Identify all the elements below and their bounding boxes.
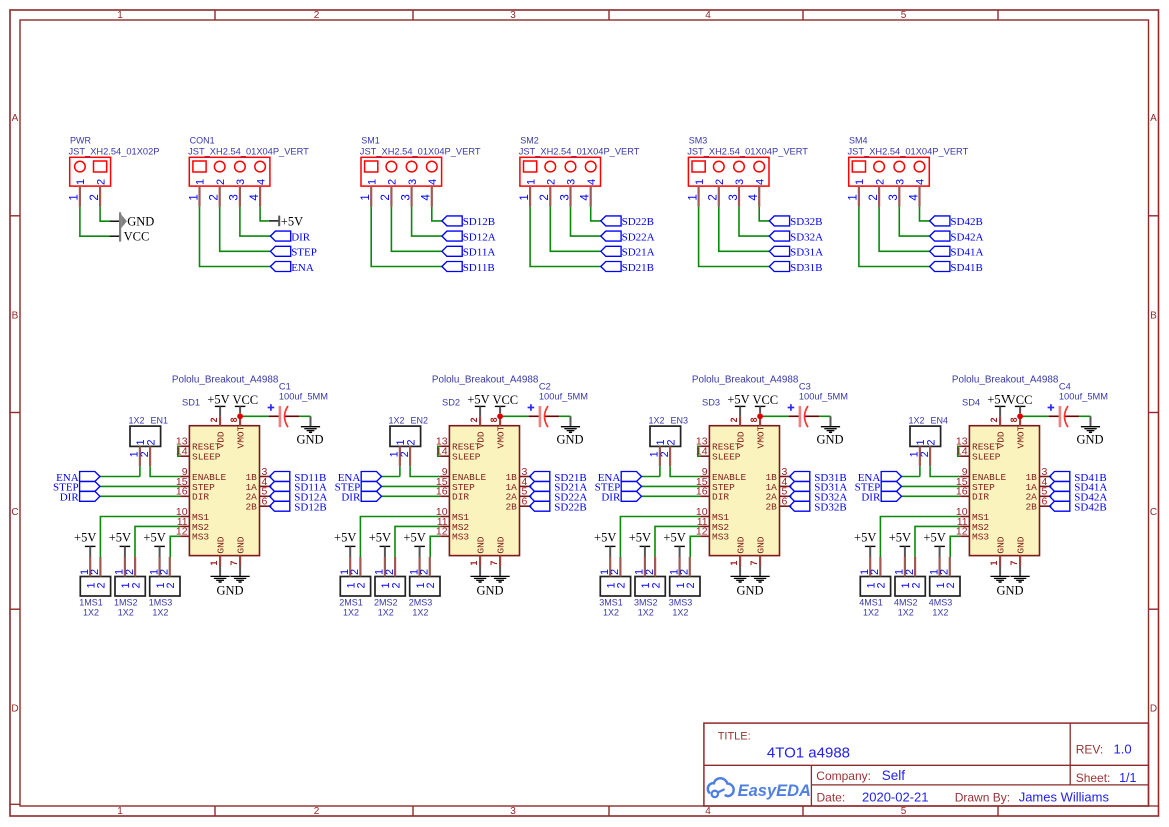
net flag ENA	[338, 472, 382, 484]
wire 4MS2.2 to SD4.MS2	[915, 526, 960, 557]
ground symbol	[731, 566, 750, 582]
svg-text:+5V: +5V	[403, 531, 425, 545]
svg-text:VMOT: VMOT	[236, 425, 247, 448]
svg-text:2: 2	[650, 582, 662, 588]
connector 1MS2 1X2	[114, 577, 145, 618]
svg-text:4: 4	[754, 179, 766, 185]
wire RESET-SLEEP jumper	[438, 446, 440, 456]
svg-text:EN3: EN3	[671, 415, 689, 425]
svg-text:2: 2	[679, 569, 691, 575]
svg-text:2: 2	[159, 569, 171, 575]
wire EN1.2 to SD1.ENABLE	[150, 466, 180, 476]
svg-text:2: 2	[314, 806, 320, 817]
svg-text:JST_XH2.54_01X04P_VERT: JST_XH2.54_01X04P_VERT	[519, 146, 640, 156]
svg-text:JST_XH2.54_01X02P: JST_XH2.54_01X02P	[69, 146, 160, 156]
svg-text:B: B	[1150, 311, 1157, 322]
svg-text:12: 12	[436, 526, 448, 538]
svg-text:12: 12	[956, 526, 968, 538]
svg-text:Pololu_Breakout_A4988: Pololu_Breakout_A4988	[172, 375, 279, 386]
svg-text:2: 2	[419, 569, 431, 575]
svg-text:1X2: 1X2	[909, 415, 925, 425]
svg-text:B: B	[12, 311, 19, 322]
wire 3MS1.2 to SD3.MS1	[620, 517, 700, 558]
svg-text:GND: GND	[1016, 536, 1027, 553]
svg-text:100uf_5MM: 100uf_5MM	[1059, 392, 1108, 402]
svg-text:2: 2	[89, 569, 101, 575]
svg-text:14: 14	[956, 446, 968, 458]
svg-text:5: 5	[901, 10, 907, 21]
svg-text:+5V: +5V	[207, 393, 229, 407]
svg-text:100uf_5MM: 100uf_5MM	[539, 392, 588, 402]
svg-text:+5V: +5V	[369, 531, 391, 545]
svg-text:1MS2: 1MS2	[114, 597, 138, 607]
svg-text:3: 3	[895, 179, 907, 185]
EasyEDA logo	[708, 778, 811, 800]
net flag SD32B	[790, 501, 847, 513]
svg-text:SLEEP: SLEEP	[972, 452, 1001, 463]
net flag SD31B	[790, 472, 847, 484]
wire SD1.VMOT/VCC to C1	[240, 415, 269, 417]
connector EN1 1X2	[129, 415, 169, 446]
net flag SD42B	[930, 216, 983, 228]
net flag SD41B	[1050, 472, 1107, 484]
power port +5V	[269, 214, 303, 228]
svg-text:+5V: +5V	[143, 531, 165, 545]
connector PWR (JST_XH2.54_01X02P)	[69, 136, 160, 187]
net flag SD12B	[270, 501, 327, 513]
wire SM2.4 to SD22B	[591, 207, 601, 221]
svg-text:2: 2	[925, 439, 937, 445]
svg-text:16: 16	[696, 486, 708, 498]
power port VCC (SD4)	[1007, 393, 1033, 414]
svg-text:GND: GND	[556, 432, 583, 446]
svg-text:2: 2	[379, 194, 392, 200]
connector 4MS3 1X2	[929, 577, 960, 618]
net flag SD21A	[530, 481, 588, 493]
svg-text:DIR: DIR	[972, 492, 989, 503]
wire DIR net to SD3.DIR	[642, 495, 701, 497]
svg-text:VCC: VCC	[1007, 393, 1033, 407]
wire PWR.2 to GND port	[100, 207, 110, 221]
wire CON1.3 to DIR	[240, 207, 271, 236]
svg-text:+5V: +5V	[594, 531, 616, 545]
svg-text:SM3: SM3	[689, 136, 708, 146]
svg-text:4TO1 a4988: 4TO1 a4988	[767, 745, 850, 762]
pins of CON1	[187, 186, 261, 207]
wire C1 to ground	[299, 415, 310, 417]
power port +5V	[727, 393, 749, 417]
net flag DIR	[270, 231, 310, 243]
net flag SD42A	[930, 231, 984, 243]
svg-text:2MS3: 2MS3	[409, 597, 433, 607]
svg-text:2: 2	[616, 582, 628, 588]
wire EN2.1 stem	[399, 466, 401, 476]
wire C2 to ground	[559, 415, 570, 417]
svg-text:SD3: SD3	[702, 397, 720, 407]
power port +5V (4MS3.1)	[923, 531, 945, 557]
svg-text:1MS3: 1MS3	[149, 597, 173, 607]
svg-text:2: 2	[644, 569, 656, 575]
net flag SD11A	[442, 246, 495, 258]
pins of SM3	[686, 186, 760, 207]
svg-text:+5V: +5V	[923, 531, 945, 545]
wire 3MS2.2 to SD3.MS2	[655, 526, 700, 557]
capacitor C3 100uf_5MM	[788, 381, 848, 427]
wire 4MS1.2 to SD4.MS1	[880, 517, 960, 558]
svg-text:STEP: STEP	[291, 247, 317, 259]
svg-text:VMOT: VMOT	[1016, 425, 1027, 448]
svg-text:2: 2	[685, 582, 697, 588]
svg-text:2020-02-21: 2020-02-21	[862, 790, 929, 805]
svg-text:SD12A: SD12A	[463, 231, 496, 243]
svg-text:1X2: 1X2	[863, 607, 879, 617]
ground symbol	[471, 566, 490, 582]
connector 3MS3 1X2	[669, 577, 700, 618]
svg-text:4: 4	[579, 194, 592, 201]
svg-text:VDD: VDD	[216, 431, 227, 448]
ground symbol	[1081, 416, 1100, 432]
svg-text:1X2: 1X2	[649, 415, 665, 425]
svg-text:2: 2	[88, 194, 101, 200]
ground symbol	[991, 566, 1010, 582]
net flag ENA	[858, 472, 902, 484]
power port VCC (SD3)	[752, 393, 778, 414]
svg-text:2: 2	[665, 439, 677, 445]
ground symbol	[821, 416, 840, 432]
net flag SD11B	[442, 262, 495, 274]
svg-text:3: 3	[399, 194, 412, 200]
net flag SD12A	[270, 491, 328, 503]
pins of PWR	[68, 186, 101, 207]
pins of 4MS2	[894, 557, 916, 577]
wire CON1.2 to STEP	[220, 207, 271, 252]
svg-text:Pololu_Breakout_A4988: Pololu_Breakout_A4988	[692, 375, 799, 386]
svg-text:GND: GND	[476, 536, 487, 553]
svg-text:6: 6	[522, 496, 528, 508]
svg-text:2: 2	[910, 582, 922, 588]
svg-text:SD31A: SD31A	[790, 247, 823, 259]
svg-text:VDD: VDD	[476, 431, 487, 448]
svg-text:DIR: DIR	[861, 492, 881, 504]
svg-text:1X2: 1X2	[638, 607, 654, 617]
pins of SM1	[359, 186, 433, 207]
connector 3MS2 1X2	[634, 577, 665, 618]
pins of EN4	[909, 446, 931, 466]
svg-text:1: 1	[366, 179, 378, 185]
svg-text:3: 3	[734, 179, 746, 185]
svg-text:SD42B: SD42B	[1074, 502, 1106, 514]
svg-text:SD42A: SD42A	[950, 231, 983, 243]
svg-text:1X2: 1X2	[412, 607, 428, 617]
wire 1MS2.2 to SD1.MS2	[135, 526, 180, 557]
svg-text:2: 2	[139, 451, 151, 457]
wire 2MS3.2 to SD2.MS3	[430, 536, 440, 557]
svg-text:2: 2	[714, 179, 726, 185]
pins of 4MS3	[928, 557, 950, 577]
svg-text:7: 7	[749, 561, 759, 566]
wire EN2.2 to SD2.ENABLE	[410, 466, 440, 476]
svg-text:Company:: Company:	[816, 769, 871, 783]
wire 4MS3.2 to SD4.MS3	[950, 536, 960, 557]
net flag SD11B	[270, 472, 327, 484]
wire EN1.1 stem	[139, 466, 141, 476]
svg-text:8: 8	[489, 417, 499, 422]
svg-text:2: 2	[939, 569, 951, 575]
svg-text:4MS1: 4MS1	[859, 597, 883, 607]
wire 2MS1.2 to SD2.MS1	[360, 517, 440, 558]
wire SM4.3 to SD42A	[899, 207, 929, 236]
wire SM3.1 to SD31B	[699, 207, 770, 267]
svg-text:James Williams: James Williams	[1019, 790, 1110, 805]
svg-text:GND: GND	[127, 215, 154, 229]
svg-text:4: 4	[427, 179, 439, 185]
net flag DIR	[861, 491, 901, 503]
power port +5V (2MS3.1)	[403, 531, 425, 557]
wire 1MS1.2 to SD1.MS1	[100, 517, 180, 558]
svg-text:GND: GND	[1076, 432, 1103, 446]
capacitor C2 100uf_5MM	[528, 381, 588, 427]
svg-text:2: 2	[945, 582, 957, 588]
pins of SM4	[847, 186, 921, 207]
svg-text:Pololu_Breakout_A4988: Pololu_Breakout_A4988	[952, 375, 1059, 386]
svg-text:Drawn By:: Drawn By:	[955, 791, 1010, 805]
net flag SD21B	[530, 472, 587, 484]
net flag STEP	[335, 481, 382, 493]
svg-text:1: 1	[209, 561, 219, 566]
junction dot VCC node	[1017, 413, 1023, 419]
svg-text:JST_XH2.54_01X04P_VERT: JST_XH2.54_01X04P_VERT	[188, 146, 309, 156]
svg-text:SD31B: SD31B	[790, 262, 822, 274]
svg-text:1: 1	[525, 179, 537, 185]
svg-text:3: 3	[407, 179, 419, 185]
pins of 3MS1	[599, 557, 621, 577]
svg-text:14: 14	[696, 446, 708, 458]
ground symbol	[231, 566, 250, 582]
svg-text:4: 4	[915, 179, 927, 185]
svg-text:GND: GND	[756, 536, 767, 553]
svg-text:2: 2	[989, 417, 999, 422]
svg-text:Self: Self	[882, 768, 906, 783]
svg-text:DIR: DIR	[341, 492, 361, 504]
svg-text:12: 12	[176, 526, 188, 538]
capacitor C4 100uf_5MM	[1048, 381, 1108, 427]
svg-text:1: 1	[469, 561, 479, 566]
svg-text:ENA: ENA	[291, 262, 314, 274]
connector SM3 (JST_XH2.54_01X04P_VERT)	[687, 136, 808, 187]
svg-text:2B: 2B	[505, 502, 517, 513]
svg-text:1X2: 1X2	[83, 607, 99, 617]
wire SD2.VMOT/VCC to C2	[500, 415, 528, 417]
svg-text:DIR: DIR	[291, 231, 311, 243]
svg-text:GND: GND	[216, 583, 243, 597]
power port +5V (4MS2.1)	[889, 531, 911, 557]
svg-text:8: 8	[229, 417, 239, 422]
wire 3MS3.2 to SD3.MS3	[690, 536, 700, 557]
net flag SD11A	[270, 481, 327, 493]
svg-text:+5V: +5V	[727, 393, 749, 407]
power port +5V (1MS2.1)	[109, 531, 131, 557]
svg-text:3MS3: 3MS3	[669, 597, 693, 607]
net flag SD12B	[442, 216, 495, 228]
svg-text:2: 2	[356, 582, 368, 588]
ground symbol	[211, 566, 230, 582]
wire DIR net to SD4.DIR	[902, 495, 961, 497]
svg-text:1: 1	[847, 194, 860, 200]
svg-text:3: 3	[566, 179, 578, 185]
power port +5V (3MS1.1)	[594, 531, 616, 557]
svg-text:16: 16	[436, 486, 448, 498]
pins of EN3	[649, 446, 671, 466]
svg-text:1: 1	[75, 179, 87, 185]
junction dot VCC node	[497, 413, 503, 419]
svg-text:1X2: 1X2	[152, 607, 168, 617]
ground symbol	[301, 416, 320, 432]
svg-text:2: 2	[425, 582, 437, 588]
svg-text:C3: C3	[799, 381, 811, 391]
svg-text:JST_XH2.54_01X04P_VERT: JST_XH2.54_01X04P_VERT	[360, 146, 481, 156]
svg-text:2: 2	[130, 582, 142, 588]
svg-text:2: 2	[399, 451, 411, 457]
svg-text:4: 4	[255, 179, 267, 185]
svg-text:SD12B: SD12B	[294, 502, 326, 514]
svg-text:2: 2	[349, 569, 361, 575]
svg-text:JST_XH2.54_01X04P_VERT: JST_XH2.54_01X04P_VERT	[687, 146, 808, 156]
svg-text:2: 2	[314, 10, 320, 21]
svg-text:D: D	[1150, 704, 1157, 715]
svg-text:DIR: DIR	[601, 492, 621, 504]
ground symbol	[491, 566, 510, 582]
svg-text:C4: C4	[1059, 381, 1071, 391]
net flag DIR	[601, 491, 641, 503]
net flag SD21B	[601, 262, 654, 274]
power port VCC (SD1)	[232, 393, 258, 414]
power port VCC (PWR)	[110, 230, 150, 244]
wire SM4.1 to SD41B	[859, 207, 930, 267]
svg-text:MS3: MS3	[192, 532, 209, 543]
wire RESET-SLEEP jumper	[958, 446, 960, 456]
svg-text:GND: GND	[816, 432, 843, 446]
svg-text:2: 2	[707, 194, 720, 200]
svg-text:2MS2: 2MS2	[374, 597, 398, 607]
svg-text:VDD: VDD	[736, 431, 747, 448]
svg-text:2: 2	[405, 439, 417, 445]
svg-text:SLEEP: SLEEP	[452, 452, 481, 463]
svg-text:4: 4	[907, 194, 920, 201]
wire STEP net to SD2.STEP	[382, 485, 441, 487]
net flag SD21A	[601, 246, 655, 258]
wire SM3.2 to SD31A	[719, 207, 770, 252]
power port +5V (3MS3.1)	[663, 531, 685, 557]
pins of 1MS1	[79, 557, 101, 577]
svg-text:1/1: 1/1	[1119, 771, 1136, 785]
wire C3 to ground	[819, 415, 830, 417]
ground port GND (PWR)	[110, 212, 155, 241]
svg-text:PWR: PWR	[70, 136, 91, 146]
wire SM4.4 to SD42B	[920, 207, 930, 221]
pins of 2MS2	[374, 557, 396, 577]
wire CON1.1 to ENA	[200, 207, 271, 267]
svg-text:16: 16	[176, 486, 188, 498]
svg-text:1: 1	[117, 10, 123, 21]
svg-text:1: 1	[686, 194, 699, 200]
net flag STEP	[53, 481, 100, 493]
svg-text:DIR: DIR	[60, 492, 80, 504]
svg-text:8: 8	[749, 417, 759, 422]
svg-text:2: 2	[390, 582, 402, 588]
module SD2 Pololu_Breakout_A4988	[432, 375, 539, 566]
svg-text:1: 1	[195, 179, 207, 185]
wire 1MS3.2 to SD1.MS3	[170, 536, 180, 557]
wire SM1.3 to SD12A	[412, 207, 442, 236]
svg-text:2: 2	[208, 194, 221, 200]
svg-text:1X2: 1X2	[603, 607, 619, 617]
wire SM1.1 to SD11B	[371, 207, 442, 267]
wire SM4.2 to SD41A	[879, 207, 930, 252]
power port +5V	[987, 393, 1009, 417]
svg-text:1: 1	[68, 194, 81, 200]
svg-text:1X2: 1X2	[898, 607, 914, 617]
pins of 3MS3	[668, 557, 690, 577]
connector SM1 (JST_XH2.54_01X04P_VERT)	[360, 136, 481, 187]
svg-text:SLEEP: SLEEP	[712, 452, 741, 463]
connector SM2 (JST_XH2.54_01X04P_VERT)	[519, 136, 640, 187]
svg-text:7: 7	[489, 561, 499, 566]
svg-text:6: 6	[262, 496, 268, 508]
connector 1MS1 1X2	[79, 577, 110, 618]
svg-text:SLEEP: SLEEP	[192, 452, 221, 463]
wire C4 to ground	[1079, 415, 1090, 417]
wire EN3.2 to SD3.ENABLE	[670, 466, 700, 476]
svg-text:4MS2: 4MS2	[894, 597, 918, 607]
svg-text:C: C	[11, 507, 18, 518]
power port +5V (2MS2.1)	[369, 531, 391, 557]
svg-text:1MS1: 1MS1	[79, 597, 103, 607]
net flag STEP	[270, 246, 316, 258]
svg-text:1: 1	[729, 561, 739, 566]
net flag SD41B	[930, 262, 983, 274]
svg-text:2B: 2B	[1025, 502, 1037, 513]
svg-text:SD11B: SD11B	[463, 262, 495, 274]
wire SM1.4 to SD12B	[432, 207, 442, 221]
svg-text:SM1: SM1	[361, 136, 380, 146]
ground symbol	[1011, 566, 1030, 582]
svg-text:7: 7	[229, 561, 239, 566]
svg-text:SD1: SD1	[182, 397, 200, 407]
svg-text:TITLE:: TITLE:	[718, 731, 751, 743]
svg-text:VCC: VCC	[232, 393, 258, 407]
svg-text:GND: GND	[236, 536, 247, 553]
svg-text:SM2: SM2	[520, 136, 539, 146]
net flag SD22A	[530, 491, 588, 503]
connector SM4 (JST_XH2.54_01X04P_VERT)	[848, 136, 969, 187]
svg-text:1X2: 1X2	[932, 607, 948, 617]
svg-text:1X2: 1X2	[378, 607, 394, 617]
svg-text:1: 1	[694, 179, 706, 185]
svg-text:6: 6	[782, 496, 788, 508]
wire EN4.1 stem	[919, 466, 921, 476]
power port +5V (2MS1.1)	[334, 531, 356, 557]
wire SM3.4 to SD32B	[759, 207, 769, 221]
svg-text:2: 2	[95, 179, 107, 185]
connector 1MS3 1X2	[149, 577, 180, 618]
svg-text:1: 1	[187, 194, 200, 200]
svg-text:SD4: SD4	[962, 397, 980, 407]
net flag SD42A	[1050, 491, 1108, 503]
svg-text:14: 14	[176, 446, 188, 458]
net flag DIR	[60, 491, 100, 503]
connector 2MS1 1X2	[339, 577, 370, 618]
wire SD3.VMOT/VCC to C3	[760, 415, 789, 417]
